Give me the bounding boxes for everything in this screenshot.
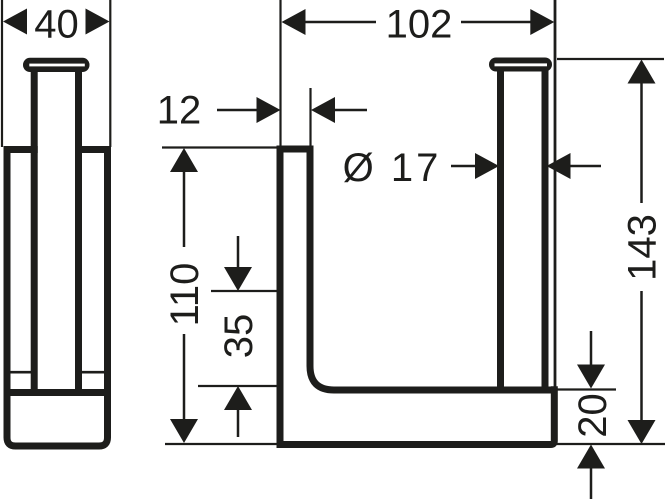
dim 12: right extension line [309, 88, 311, 147]
dim 40: left extension line [1, 0, 3, 147]
dim 35: top arrow (down) [224, 267, 252, 291]
dim 40: right arrow [86, 9, 110, 35]
svg-text:12: 12 [157, 89, 202, 133]
side view: body top edge left segment [4, 146, 38, 153]
dim 12: right tail line [334, 109, 367, 112]
dim Ø17: right tail line [570, 165, 602, 168]
dim 102: left arrow [282, 9, 306, 35]
front view: post right edge [542, 70, 549, 387]
dim 143: upper line segment [640, 83, 643, 204]
dim Ø17: left arrow [475, 153, 499, 179]
dim Ø17: right arrow [547, 153, 571, 179]
dim 102: right arrow [530, 9, 554, 35]
side view: bar rear edge [75, 70, 82, 393]
dim 35: bottom tail line [237, 409, 240, 437]
dim 20: bottom tail line [590, 468, 593, 500]
side view: body top edge right segment [75, 146, 111, 153]
dim 110: lower line segment [183, 334, 186, 420]
dim 110: upper line segment [183, 171, 186, 247]
svg-text:102: 102 [386, 3, 453, 47]
dim 102: right line segment [461, 21, 531, 24]
front view: post left edge [497, 70, 504, 387]
dim 20+143: bottom extension line [556, 443, 665, 445]
side view: wall plate cap [23, 58, 90, 72]
dim 20: top tail line [590, 331, 593, 366]
dim 20: bottom arrow (up) [577, 445, 605, 469]
side view: bar front edge [31, 70, 38, 393]
front view: left wall inner face + fillet + bar top edge [310, 149, 551, 390]
dim 110: bottom extension line [165, 443, 277, 445]
dim 110: top arrow [170, 148, 198, 172]
dim 35: bottom arrow (up) [224, 386, 252, 410]
dim 110: top extension line [162, 146, 277, 148]
side view: inner thin edge right [82, 371, 105, 374]
svg-text:143: 143 [621, 214, 665, 281]
dim 102: left line segment [305, 21, 377, 24]
front view: left wall outer face [277, 146, 284, 449]
dim 143: top extension line [557, 58, 664, 60]
dim 20: top extension line [556, 388, 616, 390]
svg-text:20: 20 [571, 393, 615, 438]
dim Ø17: leader line [451, 165, 476, 168]
dim 12: leader line [217, 109, 258, 112]
dim 102: left extension line (shared with 12) [279, 0, 281, 147]
dim 40: right extension line [109, 0, 111, 147]
svg-text:Ø 17: Ø 17 [343, 146, 442, 190]
svg-text:110: 110 [163, 263, 207, 327]
front view: right silhouette line / 102 extension [554, 0, 557, 387]
front view: wall plate cap [489, 58, 552, 72]
dim 143: lower line segment [640, 291, 643, 420]
dim 143: bottom arrow (down) [628, 420, 656, 444]
side view: bar bottom / shelf edge [11, 389, 105, 396]
front view: left wall top edge [277, 146, 314, 153]
dim 35: top extension line [211, 290, 277, 292]
dim 110: bottom arrow [170, 419, 198, 443]
dim 12: left arrow [257, 97, 281, 123]
dim 35: top tail line [237, 236, 240, 268]
dim 143: top arrow (up) [628, 60, 656, 84]
side view: inner thin edge left [11, 371, 32, 374]
dim 35: bottom extension line [198, 385, 277, 387]
dim 40: left arrow [3, 9, 27, 35]
side view: body outline [7, 147, 108, 447]
dim 20: top arrow (down) [577, 365, 605, 389]
svg-text:40: 40 [34, 3, 79, 47]
svg-text:35: 35 [217, 314, 261, 359]
dim 12: right arrow [311, 97, 335, 123]
front view: bar bottom edge and right end [277, 386, 555, 444]
